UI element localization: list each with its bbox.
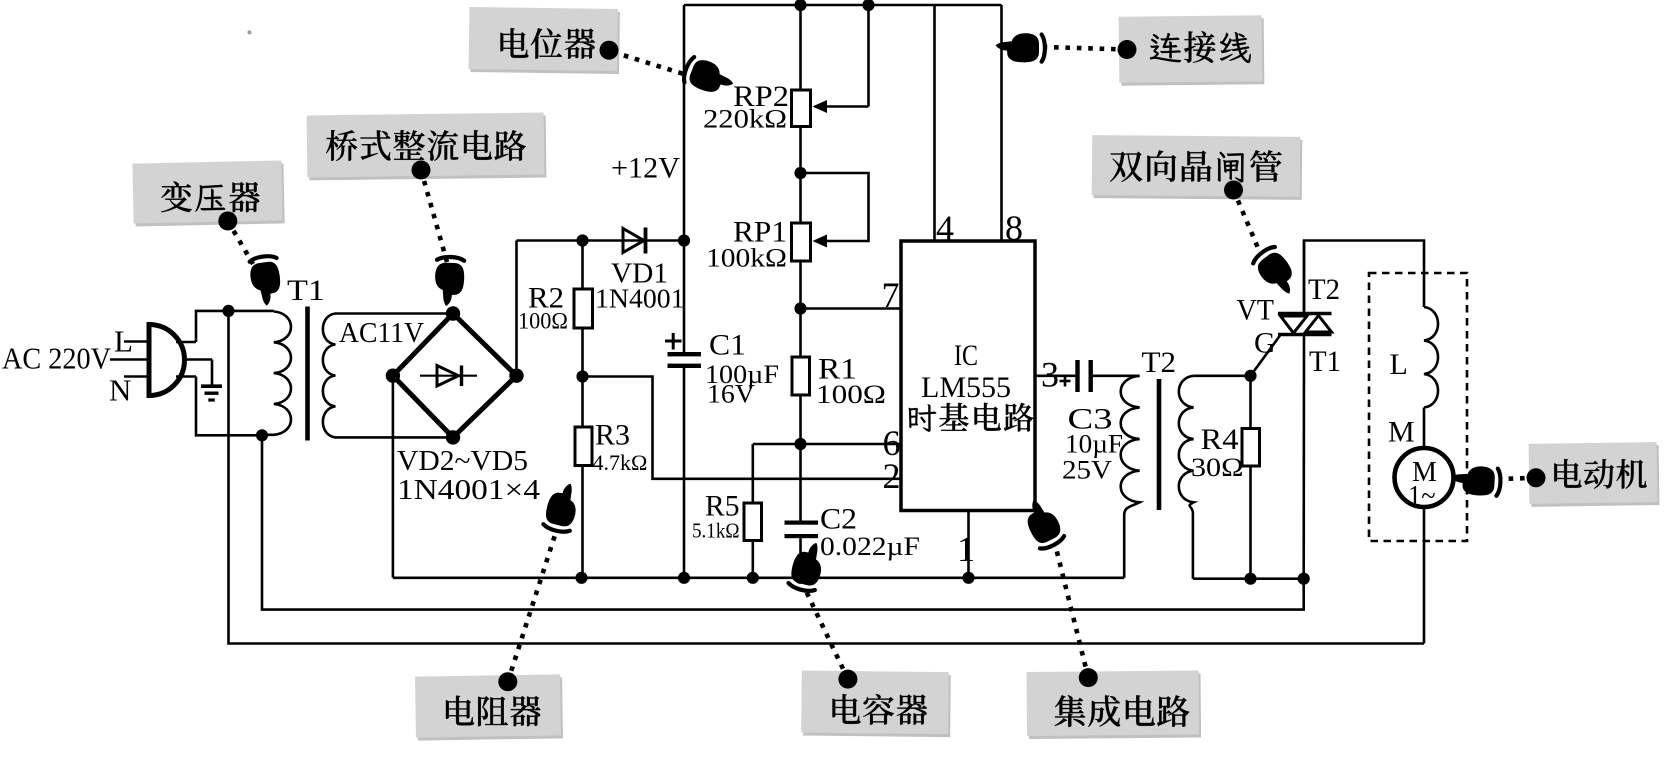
node R2 top junction [576,234,588,246]
wire pin3 [1035,374,1075,377]
label C3 value 25V [1062,456,1112,485]
node bridge top [446,306,460,320]
svg-text:1N4001×4: 1N4001×4 [397,475,540,506]
callout dot 变压器 [218,212,237,231]
wire pin1 riser [967,511,970,578]
node RP2 top junction [794,0,806,11]
label pin 4 [936,208,954,248]
callout label 双向晶闸管 (triac) [1092,135,1303,200]
wire T2 secondary top to gate node [1194,374,1251,377]
node R1/C2/pin6 junction [794,438,806,450]
label R4 value 30Ω [1191,453,1244,482]
callout dot 连接线 [1118,40,1137,59]
label 100kΩ [706,244,787,273]
label R3 [595,419,630,452]
transformer T1 core [305,307,310,441]
svg-text:+12V: +12V [611,152,680,185]
label VD2~VD5 [397,446,528,477]
callout dot 电位器 [600,41,619,60]
transistor VT triac [1251,241,1332,579]
wire L to motor [1423,408,1426,449]
svg-text:AC 220V: AC 220V [2,341,112,376]
wire plug L to T1 top [196,311,274,342]
label C1 [709,329,746,362]
label C3 plus sign [1060,376,1071,387]
label C3 value 10µF [1065,430,1123,459]
motor M circle [1395,448,1454,507]
wire top +12V bus [684,4,1002,7]
svg-text:100Ω: 100Ω [518,309,568,334]
wire ground rail [393,576,1124,579]
node R2/R3/pin2 junction [576,370,588,382]
callout label 连接线 (connecting wire) [1119,15,1265,86]
label L [114,324,133,359]
label R2 value 100Ω [518,309,568,334]
capacitor C2 [785,444,819,578]
wire RP2 top riser [799,5,802,90]
AC plug connector [110,325,212,396]
svg-text:M: M [1388,416,1415,449]
label C2 [820,503,857,536]
label R1 [818,353,857,386]
transformer T2 core [1157,379,1162,510]
label T1 [287,274,325,307]
label pin 8 [1005,208,1023,248]
hand pointer 电位器 [681,55,737,100]
leader dotted 电位器 [613,52,687,75]
svg-text:AC11V: AC11V [339,318,424,349]
label R5 [705,490,740,523]
transformer T1 secondary winding [323,314,453,438]
wire pin8 riser [1000,5,1003,241]
svg-text:1N4001: 1N4001 [595,284,685,314]
node gate junction [1244,370,1256,382]
resistor R3 [575,377,592,578]
hand pointer 连接线 [996,33,1045,62]
ground symbol [201,360,222,401]
callout dot 双向晶闸管 [1224,181,1243,200]
op-amp/timer IC LM555 box [901,241,1035,511]
label 1~ in motor [1408,481,1436,512]
label pin 6 [883,423,901,463]
svg-text:LM555: LM555 [921,371,1011,404]
paper speck [248,30,252,34]
label IC [954,339,978,372]
svg-text:4: 4 [936,208,954,248]
node R5 bottom junction [747,572,759,584]
label M in motor [1412,457,1437,488]
label AC11V [339,318,424,349]
label pin 2 [883,456,901,496]
label M winding [1388,416,1415,449]
leader dotted 电阻器 [508,535,555,682]
leader dotted 变压器 [228,221,253,264]
label pin 3 [1041,355,1059,395]
label C1 value 16V [707,380,755,409]
svg-text:L: L [1390,348,1408,381]
label +12V [611,152,680,185]
hand pointer 电动机 [1451,465,1502,497]
hand pointer 电阻器 [542,480,582,535]
label triac T1 [1309,345,1341,378]
label 220kΩ [703,105,787,134]
node bridge bottom [446,430,460,444]
svg-text:C1: C1 [709,329,746,362]
diode VD1 [623,228,646,254]
leader dotted 连接线 [1045,47,1127,50]
svg-text:R3: R3 [595,419,630,452]
wire mains return rail lower [229,311,1425,644]
svg-text:100kΩ: 100kΩ [706,244,787,273]
hand pointer 变压器 [248,255,284,308]
svg-text:T1: T1 [287,274,325,307]
inductor L winding [1424,307,1438,408]
transformer T1 primary winding [262,312,291,435]
callout dot 桥式整流电路 [412,161,431,180]
svg-text:VT: VT [1237,294,1275,327]
label R3 value 4.7kΩ [593,450,648,475]
wire pin2 [583,377,902,479]
callout dot 电阻器 [498,672,517,691]
svg-text:0.022µF: 0.022µF [820,532,920,561]
resistor R4 [1242,376,1260,579]
node T1 primary bottom junction [256,429,268,441]
node RP1/R1/pin7 junction [794,302,806,314]
label VD1 value 1N4001 [595,284,685,314]
wire bridge left vertex to ground rail [392,376,395,578]
label LM555 [921,371,1011,404]
svg-text:1: 1 [957,529,975,569]
node bridge right [509,369,523,383]
wire plug N to T1 bottom [196,377,262,436]
label 1N4001×4 [397,475,540,506]
label triac T2 [1308,273,1340,306]
wire VD1 bus [517,239,685,242]
label pin 7 [882,275,900,315]
callout label 电阻器 (resistor) [415,674,563,740]
leader dotted 双向晶闸管 [1234,190,1262,255]
node pin1 bottom junction [962,572,974,584]
resistor R1 [792,309,810,445]
capacitor C1 [668,352,702,368]
label C1 value 100µF [705,360,779,389]
node bridge left [386,369,400,383]
callout label 变压器 (transformer) [132,160,284,226]
bridge rectifier VD2~VD5 [393,314,517,438]
wire triac T2 to motor branch [1304,241,1424,314]
label R2 [528,282,564,315]
label R1 value 100Ω [816,380,886,409]
node C2 bottom junction [794,572,806,584]
resistor R2 [574,241,593,377]
node triac T1 bottom junction [1298,573,1310,585]
node R3 bottom junction [575,572,587,584]
wire pin6 [753,443,901,446]
label VT [1237,294,1275,327]
svg-text:4.7kΩ: 4.7kΩ [593,450,648,475]
label C1 plus sign [665,333,682,350]
callout label 集成电路 (integrated circuit) [1027,671,1202,740]
callout label 电容器 (capacitor) [801,671,951,738]
hand pointer 集成电路 [1019,495,1067,552]
svg-text:IC: IC [954,339,978,372]
node +12V/bottom-rail junction [678,572,690,584]
potentiometer RP2 [792,5,869,173]
node RP2/RP1 junction [794,167,806,179]
motor dashed enclosure [1369,273,1467,541]
wire motor bottom [1423,507,1426,644]
svg-text:5.1kΩ: 5.1kΩ [692,519,740,543]
svg-text:25V: 25V [1062,456,1112,485]
label T2 [1142,346,1177,379]
label C3 [1068,403,1113,436]
resistor R5 [744,444,762,578]
label RP1 [733,216,787,249]
label R5 value 5.1kΩ [692,519,740,543]
label C2 value 0.022µF [820,532,920,561]
svg-text:8: 8 [1005,208,1023,248]
transformer T2 secondary winding [1179,376,1194,579]
callout dot 电容器 [838,670,857,689]
label R4 [1201,423,1239,456]
label RP2 [733,80,789,113]
capacitor C3 [1075,360,1139,392]
node RP2 wiper riser junction [862,0,874,11]
label G [1254,327,1276,360]
wire T2 secondary bottom segment [1193,577,1304,580]
callout label 桥式整流电路 (bridge rectifier circuit) [307,113,547,181]
leader dotted 电动机 [1499,478,1536,479]
label VD1 [611,258,668,290]
leader dotted 桥式整流电路 [421,170,447,262]
hand pointer 双向晶闸管 [1250,244,1303,301]
svg-text:T1: T1 [1309,345,1341,378]
transformer T2 primary winding [1121,376,1140,578]
wire bridge right vertex to VD1 bus [515,241,518,376]
label N [109,373,131,408]
svg-text:16V: 16V [707,380,755,409]
svg-text:T2: T2 [1142,346,1177,379]
svg-text:VD2~VD5: VD2~VD5 [397,446,528,477]
callout label 电位器 (potentiometer) [469,7,620,74]
svg-text:T2: T2 [1308,273,1340,306]
label L [1390,348,1408,381]
wire pin7 [801,307,902,310]
svg-text:1~: 1~ [1408,481,1436,512]
callout dot 电动机 [1527,468,1546,487]
node T1 primary top junction [222,305,234,317]
svg-text:30Ω: 30Ω [1191,453,1244,482]
hand pointer 桥式整流电路 [434,256,465,306]
svg-text:100Ω: 100Ω [816,380,886,409]
label AC 220V [2,341,112,376]
svg-text:R4: R4 [1201,423,1239,456]
node R4 bottom junction [1244,573,1256,585]
wire mains return rail upper [262,435,1304,609]
callout label 电动机 (motor) [1529,442,1660,507]
svg-text:C2: C2 [820,503,857,536]
svg-text:7: 7 [882,275,900,315]
leader dotted 电容器 [806,591,848,679]
potentiometer RP1 [792,173,869,309]
node +12V/VD1 junction [678,234,690,246]
svg-text:G: G [1254,327,1276,360]
svg-text:220kΩ: 220kΩ [703,105,787,134]
callout dot 集成电路 [1079,668,1098,687]
hand pointer 电容器 [787,539,828,594]
label pin 1 [957,529,975,569]
IC label 时基电路 [909,403,1034,432]
leader dotted 集成电路 [1056,548,1088,678]
svg-text:2: 2 [883,456,901,496]
wire +12V rail down left side [683,5,686,578]
svg-text:10µF: 10µF [1065,430,1123,459]
wire pin4 riser [933,5,936,241]
